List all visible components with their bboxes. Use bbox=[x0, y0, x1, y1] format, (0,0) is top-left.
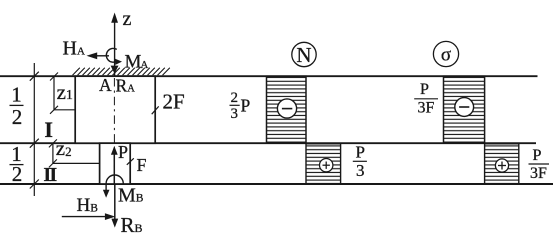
svg-text:σ: σ bbox=[441, 45, 451, 66]
svg-text:P: P bbox=[533, 147, 542, 164]
middle section line bbox=[0, 142, 536, 144]
svg-text:P: P bbox=[420, 81, 429, 98]
sigma negative sign circle bbox=[455, 98, 474, 117]
reaction R_A arrowhead bbox=[111, 66, 119, 74]
N diagram negative area bbox=[267, 76, 307, 143]
dimension tick at top bbox=[30, 72, 39, 81]
svg-text:2: 2 bbox=[12, 105, 23, 129]
left dimension line bbox=[33, 63, 35, 196]
svg-text:N: N bbox=[296, 43, 311, 67]
svg-text:3F: 3F bbox=[418, 99, 435, 116]
N negative sign circle bbox=[277, 99, 296, 118]
N positive sign circle bbox=[320, 159, 333, 172]
force H_B arrow bbox=[62, 216, 106, 218]
bottom wall line bbox=[0, 183, 553, 185]
svg-text:P: P bbox=[356, 142, 365, 161]
lower bar segment (area F) bbox=[100, 143, 131, 184]
svg-text:I: I bbox=[44, 117, 53, 142]
svg-text:3: 3 bbox=[231, 106, 239, 122]
svg-text:2: 2 bbox=[12, 162, 23, 186]
wall A hatching bbox=[73, 68, 170, 75]
force H_A arrow bbox=[96, 55, 109, 57]
sigma diagram title circle bbox=[433, 41, 458, 66]
sigma diagram positive area bbox=[485, 144, 519, 184]
force P arrow bbox=[113, 152, 115, 184]
sigma diagram negative area bbox=[444, 76, 485, 143]
svg-text:2: 2 bbox=[231, 90, 239, 106]
top wall line bbox=[0, 75, 538, 77]
dimension tick at bottom bbox=[30, 180, 39, 189]
coordinate z1 dimension line bbox=[53, 77, 55, 110]
upper bar segment (area 2F) bbox=[75, 76, 155, 143]
z axis arrow bbox=[114, 20, 116, 76]
bar centerline (dash-dot) bbox=[113, 78, 115, 182]
moment M_B arc bbox=[106, 175, 123, 184]
svg-text:3: 3 bbox=[356, 161, 365, 180]
2F leader tick bbox=[152, 106, 159, 114]
svg-text:2F: 2F bbox=[163, 90, 185, 114]
svg-text:P: P bbox=[118, 142, 128, 162]
F leader tick bbox=[127, 158, 134, 165]
svg-text:F: F bbox=[137, 155, 147, 175]
svg-text:3F: 3F bbox=[530, 165, 547, 182]
svg-text:II: II bbox=[43, 164, 57, 186]
sigma positive sign circle bbox=[495, 159, 508, 172]
dimension tick at middle bbox=[30, 139, 39, 148]
svg-text:A: A bbox=[99, 75, 112, 95]
coordinate z2 dimension line bbox=[52, 143, 54, 163]
svg-text:1: 1 bbox=[11, 83, 22, 107]
svg-text:P: P bbox=[241, 95, 251, 115]
reaction R_B arrow bbox=[114, 184, 116, 221]
svg-text:z: z bbox=[123, 8, 132, 30]
N diagram title circle bbox=[292, 42, 316, 66]
moment M_A arc bbox=[106, 48, 116, 62]
N diagram positive area bbox=[306, 144, 341, 184]
